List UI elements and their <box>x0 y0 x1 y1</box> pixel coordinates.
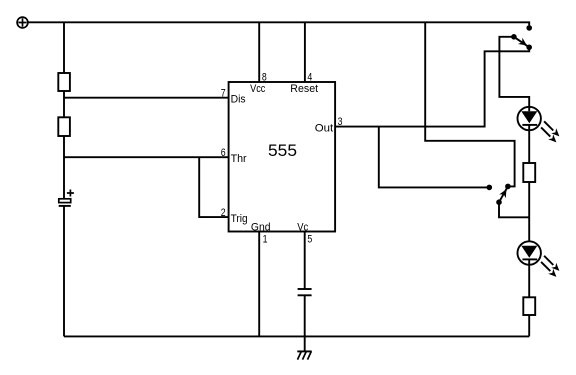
switch SW1 lever <box>514 37 529 48</box>
svg-text:Out: Out <box>315 123 333 135</box>
LED D2 arrow 1 <box>544 256 559 271</box>
switch SW2 lever arrow <box>499 189 506 198</box>
wire Out net to SW1 throw <box>335 47 529 126</box>
svg-text:7: 7 <box>221 87 226 99</box>
svg-text:Reset: Reset <box>290 83 318 95</box>
wire Vcc top rail <box>28 22 529 25</box>
svg-text:Vc: Vc <box>297 221 308 233</box>
wire C2 to ground <box>304 295 306 351</box>
svg-text:Vcc: Vcc <box>250 83 266 95</box>
LED D2 arrow 2 <box>541 262 556 277</box>
resistor R1 <box>58 73 70 91</box>
wire R4 to ground rail <box>528 315 530 336</box>
switch SW1 terminal dot bottom <box>526 45 532 51</box>
switch SW1 terminal dot top <box>526 25 532 31</box>
svg-text:4: 4 <box>307 72 312 84</box>
wire left column upper <box>63 22 65 73</box>
switch SW2 terminal dot left <box>487 185 493 191</box>
wire bottom ground rail <box>64 335 529 337</box>
wire R3 to LED D2 <box>528 182 530 241</box>
LED D1 arrow 2 <box>541 127 556 142</box>
svg-text:8: 8 <box>262 72 267 84</box>
svg-text:1: 1 <box>263 233 268 245</box>
svg-text:Dis: Dis <box>231 93 246 105</box>
svg-text:6: 6 <box>221 147 226 159</box>
wire pin 8 Vcc <box>258 22 260 82</box>
op-amp U1 555 body <box>229 82 336 232</box>
wire pin 5 Vc to C2 <box>304 232 306 289</box>
LED D1 <box>518 107 541 163</box>
wire SW2 throw to D2 column <box>499 202 529 217</box>
power terminal V+ <box>17 17 28 28</box>
svg-text:Gnd: Gnd <box>251 221 271 233</box>
LED D2 <box>518 241 541 297</box>
svg-text:Thr: Thr <box>231 153 247 165</box>
wire C1 to ground rail <box>63 206 65 337</box>
wire Thr to Trig link <box>199 157 228 217</box>
svg-text:555: 555 <box>268 141 297 160</box>
svg-text:Trig: Trig <box>231 213 248 225</box>
capacitor C2 <box>298 289 312 295</box>
wire pin 1 Gnd to rail <box>258 232 260 337</box>
svg-text:2: 2 <box>221 207 226 219</box>
wire SW1 pole to LED D1 <box>499 37 529 107</box>
switch SW2 terminal dot bottom <box>496 199 502 205</box>
switch SW1 lever arrow <box>518 38 527 46</box>
wire pin 4 Reset <box>304 22 306 82</box>
wire R1 to R2 <box>63 91 65 117</box>
wire Dis net <box>64 97 229 99</box>
ground <box>297 351 311 359</box>
LED D1 arrow 1 <box>544 121 559 136</box>
svg-text:5: 5 <box>307 233 312 245</box>
switch SW2 pole dot <box>505 184 511 190</box>
resistor R4 <box>523 297 535 315</box>
resistor R3 <box>523 163 535 182</box>
switch SW2 lever <box>499 186 508 202</box>
wire Out branch to SW2 <box>379 127 490 188</box>
resistor R2 <box>58 117 70 136</box>
wire R2 to C1 <box>63 136 65 199</box>
switch SW1 pole dot <box>511 34 517 40</box>
capacitor C1 polarized <box>59 190 74 206</box>
wire Thr net <box>64 156 229 158</box>
wire Vcc branch to SW2 common <box>425 22 514 186</box>
